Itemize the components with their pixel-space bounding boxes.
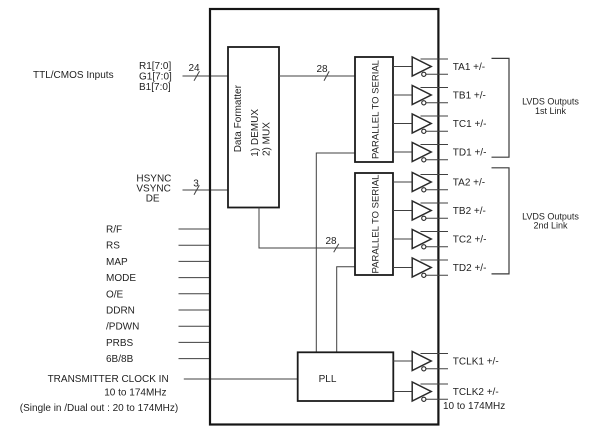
LVDS driver TC1	[393, 114, 448, 133]
bus width slash 3	[194, 185, 199, 195]
svg-text:TD1 +/-: TD1 +/-	[453, 148, 487, 159]
LVDS driver TA1	[393, 57, 448, 76]
bus width slash 24	[194, 71, 200, 81]
block parallel to serial 2	[355, 173, 393, 275]
svg-text:LVDS Outputs: LVDS Outputs	[522, 96, 579, 106]
svg-text:TA1 +/-: TA1 +/-	[453, 62, 485, 73]
svg-text:TD2 +/-: TD2 +/-	[453, 263, 487, 274]
block PLL	[298, 352, 394, 401]
svg-text:O/E: O/E	[106, 289, 124, 300]
wire R/F stub	[179, 228, 211, 230]
bracket 2nd link	[492, 168, 510, 274]
svg-text:DDRN: DDRN	[106, 306, 135, 317]
wire /PDWN stub	[179, 325, 211, 327]
wire DDRN stub	[179, 309, 211, 311]
bracket 1st link	[492, 58, 510, 157]
svg-text:TA2 +/-: TA2 +/-	[453, 178, 485, 189]
svg-text:24: 24	[188, 63, 200, 74]
block parallel to serial 1	[355, 57, 393, 162]
wire O/E stub	[179, 293, 211, 295]
LVDS driver TB1	[393, 86, 448, 105]
LVDS driver TB2	[393, 201, 448, 220]
svg-text:PLL: PLL	[319, 374, 337, 385]
svg-text:DE: DE	[146, 194, 160, 205]
svg-text:2nd Link: 2nd Link	[533, 220, 568, 230]
svg-text:PRBS: PRBS	[106, 338, 134, 349]
svg-text:G1[7:0]: G1[7:0]	[139, 72, 172, 83]
wire bus 28 to serializer 2	[259, 208, 355, 249]
wire MAP stub	[179, 260, 211, 262]
svg-text:28: 28	[325, 236, 337, 247]
svg-text:R/F: R/F	[106, 225, 122, 236]
LVDS driver TD2	[393, 258, 448, 277]
svg-text:TRANSMITTER CLOCK IN: TRANSMITTER CLOCK IN	[48, 374, 169, 385]
svg-text:1st Link: 1st Link	[535, 106, 567, 116]
wire PLL to clock driver 2	[393, 391, 412, 393]
wire PRBS stub	[179, 341, 211, 343]
svg-text:2) MUX: 2) MUX	[262, 122, 273, 156]
svg-text:TC2 +/-: TC2 +/-	[453, 235, 487, 246]
LVDS clock driver TCLK1	[412, 352, 448, 371]
wire PLL clock to serializer 1	[316, 153, 355, 352]
svg-text:TCLK1 +/-: TCLK1 +/-	[453, 357, 499, 368]
svg-text:B1[7:0]: B1[7:0]	[139, 82, 171, 93]
svg-text:MODE: MODE	[106, 273, 136, 284]
wire bus RGB input	[183, 75, 229, 77]
chip outline	[210, 9, 438, 425]
wire RS stub	[179, 244, 211, 246]
bus width slash 28a	[324, 71, 329, 81]
wire transmitter clock in	[184, 378, 298, 380]
svg-text:TB2 +/-: TB2 +/-	[453, 206, 486, 217]
svg-text:Data Formatter: Data Formatter	[233, 84, 244, 152]
svg-text:6B/8B: 6B/8B	[106, 354, 134, 365]
wire 6B/8B stub	[179, 358, 211, 360]
svg-text:3: 3	[193, 179, 199, 190]
svg-text:10 to 174MHz: 10 to 174MHz	[443, 401, 505, 412]
wire bus sync input	[183, 189, 229, 191]
block data formatter U1	[228, 47, 279, 208]
svg-text:1) DEMUX: 1) DEMUX	[250, 109, 261, 157]
svg-text:MAP: MAP	[106, 257, 128, 268]
svg-text:10 to 174MHz: 10 to 174MHz	[104, 388, 166, 399]
svg-text:R1[7:0]: R1[7:0]	[139, 61, 171, 72]
LVDS driver TC2	[393, 230, 448, 249]
LVDS clock driver TCLK2	[412, 382, 448, 401]
wire bus 28 to serializer 1	[279, 75, 355, 77]
svg-text:TB1 +/-: TB1 +/-	[453, 91, 486, 102]
wire PLL to clock driver 1	[393, 360, 412, 362]
bus width slash 28b	[334, 244, 339, 253]
LVDS driver TD1	[393, 143, 448, 162]
svg-text:(Single in /Dual out : 20 to 1: (Single in /Dual out : 20 to 174MHz)	[20, 403, 178, 414]
wire MODE stub	[179, 277, 211, 279]
svg-text:TC1 +/-: TC1 +/-	[453, 119, 487, 130]
svg-text:TTL/CMOS Inputs: TTL/CMOS Inputs	[33, 70, 114, 81]
svg-text:PARALLEL TO SERIAL: PARALLEL TO SERIAL	[370, 60, 381, 159]
svg-text:/PDWN: /PDWN	[106, 322, 139, 333]
svg-text:PARALLEL TO SERIAL: PARALLEL TO SERIAL	[370, 175, 381, 274]
svg-text:28: 28	[316, 64, 328, 75]
svg-text:RS: RS	[106, 241, 120, 252]
svg-text:TCLK2 +/-: TCLK2 +/-	[453, 387, 499, 398]
LVDS driver TA2	[393, 173, 448, 192]
wire PLL clock to serializer 2	[337, 267, 355, 353]
